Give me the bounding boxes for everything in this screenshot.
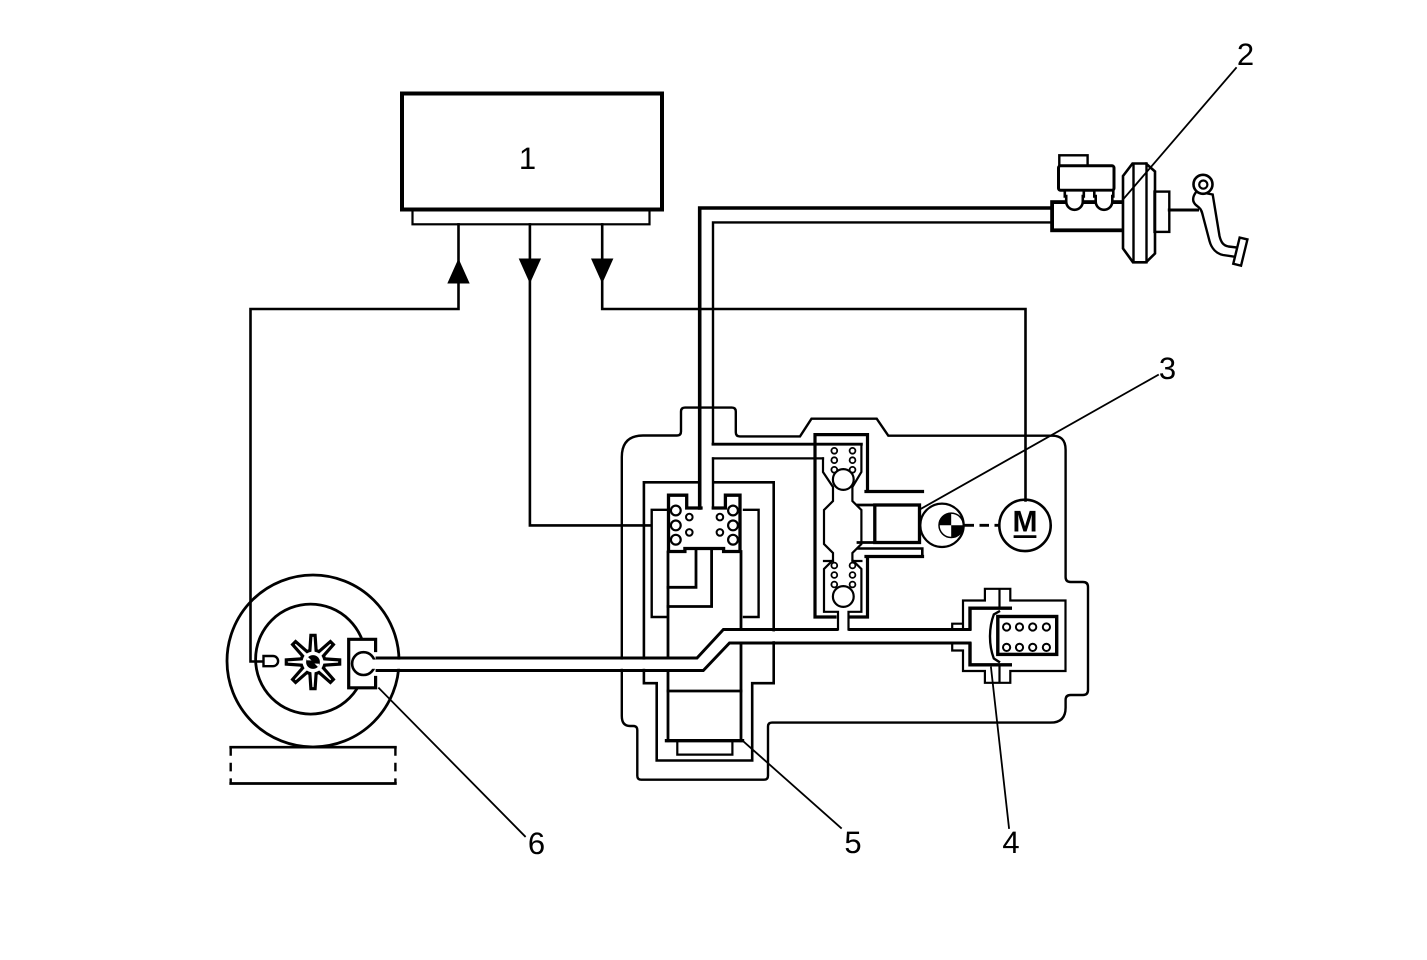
valve block outer rect R1: [644, 482, 774, 760]
motor M circle: [999, 500, 1050, 551]
lower valve ball: [833, 586, 854, 607]
ECU box 1: [402, 94, 662, 210]
dump valve upper outline: [823, 444, 861, 629]
castle port circles left: [671, 506, 681, 516]
pipe interior mask left: [370, 660, 700, 669]
pushrod: [1169, 209, 1197, 212]
arrow W3 down: [591, 259, 613, 284]
hub symbol: [306, 655, 320, 669]
leader 6: [379, 688, 525, 836]
wheel tire circle: [227, 575, 399, 747]
reservoir port 1: [1065, 190, 1084, 210]
bottom tab: [677, 742, 732, 754]
pedal arm: [1193, 192, 1241, 258]
pump piston: [875, 505, 920, 543]
brake pipe P2 caliper to HCU top wall: [372, 630, 971, 659]
bore stair lines: [668, 549, 712, 607]
pipe P1 inner wall: [713, 222, 1052, 508]
leader 2: [1123, 68, 1236, 200]
connector 4 plug: [970, 608, 1010, 665]
connector 4 bracket outline: [952, 589, 1065, 683]
tone ring gear: [286, 635, 339, 688]
valve block rect R2: [652, 510, 759, 617]
reservoir port 2: [1094, 190, 1113, 210]
label 4: [1003, 832, 1019, 853]
leader 3: [922, 375, 1159, 509]
wire W2 (ECU to inlet valve): [530, 224, 651, 525]
pump inner symbol: [939, 513, 963, 537]
pipe interior mask right: [724, 631, 969, 641]
road surface block: [231, 747, 396, 783]
arrow W2 down: [519, 259, 541, 284]
leader 5: [743, 741, 841, 828]
pin circles row 1: [1003, 623, 1010, 630]
arrow W1 up: [447, 259, 469, 284]
label 5: [846, 832, 861, 854]
bore bottom: [667, 739, 743, 742]
connector 4 seal curve: [990, 612, 999, 662]
HCU outline: [622, 408, 1088, 780]
channel B: [713, 457, 823, 459]
bore internal line: [668, 690, 741, 693]
connector 4 pin block: [998, 617, 1057, 655]
wire W3 (ECU to pump motor): [602, 224, 1025, 500]
piston guide lines: [858, 505, 875, 543]
booster rear cylinder: [1155, 192, 1170, 232]
center valve bracket: [815, 435, 868, 617]
channel A to dump valve: [713, 443, 861, 446]
brake pipe P2 bottom wall: [372, 643, 971, 671]
solenoid valve castle: [669, 495, 741, 551]
pedal pad: [1233, 238, 1247, 266]
pedal pivot eye: [1194, 175, 1213, 194]
castle port circles right: [728, 506, 738, 516]
leader 4: [991, 668, 1009, 829]
caliper piston: [352, 652, 375, 675]
dump valve lower cup top edge: [824, 560, 861, 562]
wire W1 (wheel sensor to ECU): [251, 224, 459, 661]
label 1: [521, 148, 534, 169]
ECU connector base: [413, 210, 650, 225]
reservoir cap: [1059, 155, 1087, 166]
reservoir: [1059, 166, 1115, 191]
upper valve ball: [833, 469, 854, 490]
pin circles row 2: [1003, 644, 1010, 651]
valve bore walls below castle: [668, 552, 741, 741]
pump cavity walls: [866, 492, 923, 557]
upper valve circles: [831, 448, 837, 454]
brake caliper: [349, 639, 376, 688]
lower valve circles: [831, 563, 837, 569]
pump outlet shelf: [858, 549, 922, 557]
master cylinder body: [1052, 202, 1124, 230]
label 6: [529, 832, 543, 854]
label 2: [1238, 43, 1252, 65]
wheel speed sensor: [264, 656, 279, 666]
pump circle: [920, 504, 963, 547]
wheel rim circle: [256, 604, 366, 714]
dashed link pump to motor: [965, 524, 1000, 527]
pipe P1 outer wall (master cylinder to HCU): [700, 208, 1052, 508]
label 3: [1160, 357, 1175, 379]
brake booster: [1123, 164, 1155, 263]
